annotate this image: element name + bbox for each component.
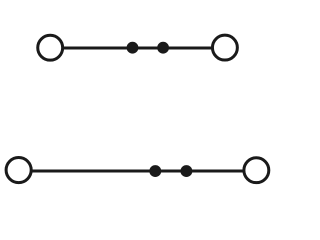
terminal circle (upper left connection point) [38, 35, 63, 60]
terminal circle (lower right connection point) [244, 158, 269, 183]
terminal circle (lower left connection point) [6, 158, 31, 183]
wire (lower level conductor) [30, 170, 245, 173]
junction dot (upper right bridge contact) [157, 42, 169, 54]
junction dot (upper left bridge contact) [127, 42, 139, 54]
wire (upper level conductor) [62, 47, 212, 50]
junction dot (lower left bridge contact) [149, 165, 161, 177]
terminal circle (upper right connection point) [212, 35, 237, 60]
junction dot (lower right bridge contact) [180, 165, 192, 177]
